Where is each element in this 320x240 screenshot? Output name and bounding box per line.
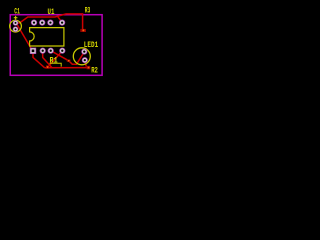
resistor R2 pad	[87, 66, 91, 69]
LED1 bottom pad	[82, 57, 88, 63]
U1 pad top3	[47, 20, 53, 26]
svg-text:R3: R3	[85, 7, 91, 16]
IC U1 body outline with notch	[30, 28, 64, 46]
U1 pad top1	[31, 20, 37, 26]
U1 pad bottom3	[48, 48, 54, 54]
background	[0, 0, 111, 86]
capacitor C1 pad 2	[13, 26, 19, 32]
resistor R3 pad	[80, 29, 86, 32]
resistor R1 silkscreen	[50, 63, 62, 66]
wire U1 pad bottom2 down to bottom bus	[43, 54, 52, 68]
svg-text:R1: R1	[50, 57, 59, 66]
wire bottom bus to R2 pad	[45, 67, 89, 69]
LED1 top pad	[81, 49, 87, 55]
svg-text:U1: U1	[48, 8, 55, 17]
wire C1 pad to U1 pin1 square pad	[16, 23, 32, 50]
U1 pin1 square pad	[30, 48, 36, 54]
U1 pad bottom2	[40, 48, 46, 54]
wire stub trace to U1 pad top4	[58, 17, 62, 23]
wire R1 right pad to LED1 top pad	[69, 52, 85, 64]
U1 pad bottom4	[59, 48, 65, 54]
resistor R1 left pad	[46, 65, 49, 69]
wire U1 pad bottom3 to R1 right pad	[51, 51, 69, 61]
LED1 outline circle	[73, 48, 90, 65]
wire VCC: C1 plus pad to R3 pad	[16, 14, 83, 30]
board outline	[10, 15, 102, 76]
wire U1 pin1 square pad down to bottom bus	[33, 54, 45, 68]
wire LED1 bottom pad to R2 pad	[85, 60, 87, 66]
capacitor C1 plus mark	[14, 16, 18, 20]
svg-text:LED1: LED1	[84, 41, 98, 50]
capacitor C1 outline	[10, 20, 22, 32]
U1 pad top4	[59, 20, 65, 26]
U1 pad top2	[39, 20, 45, 26]
wire U1 pad bottom4 down-left to R1 left pad	[48, 51, 63, 67]
svg-text:C1: C1	[14, 7, 20, 16]
svg-text:R2: R2	[91, 67, 98, 76]
resistor R1 right pad	[67, 60, 71, 62]
capacitor C1 pad 1	[13, 20, 19, 26]
